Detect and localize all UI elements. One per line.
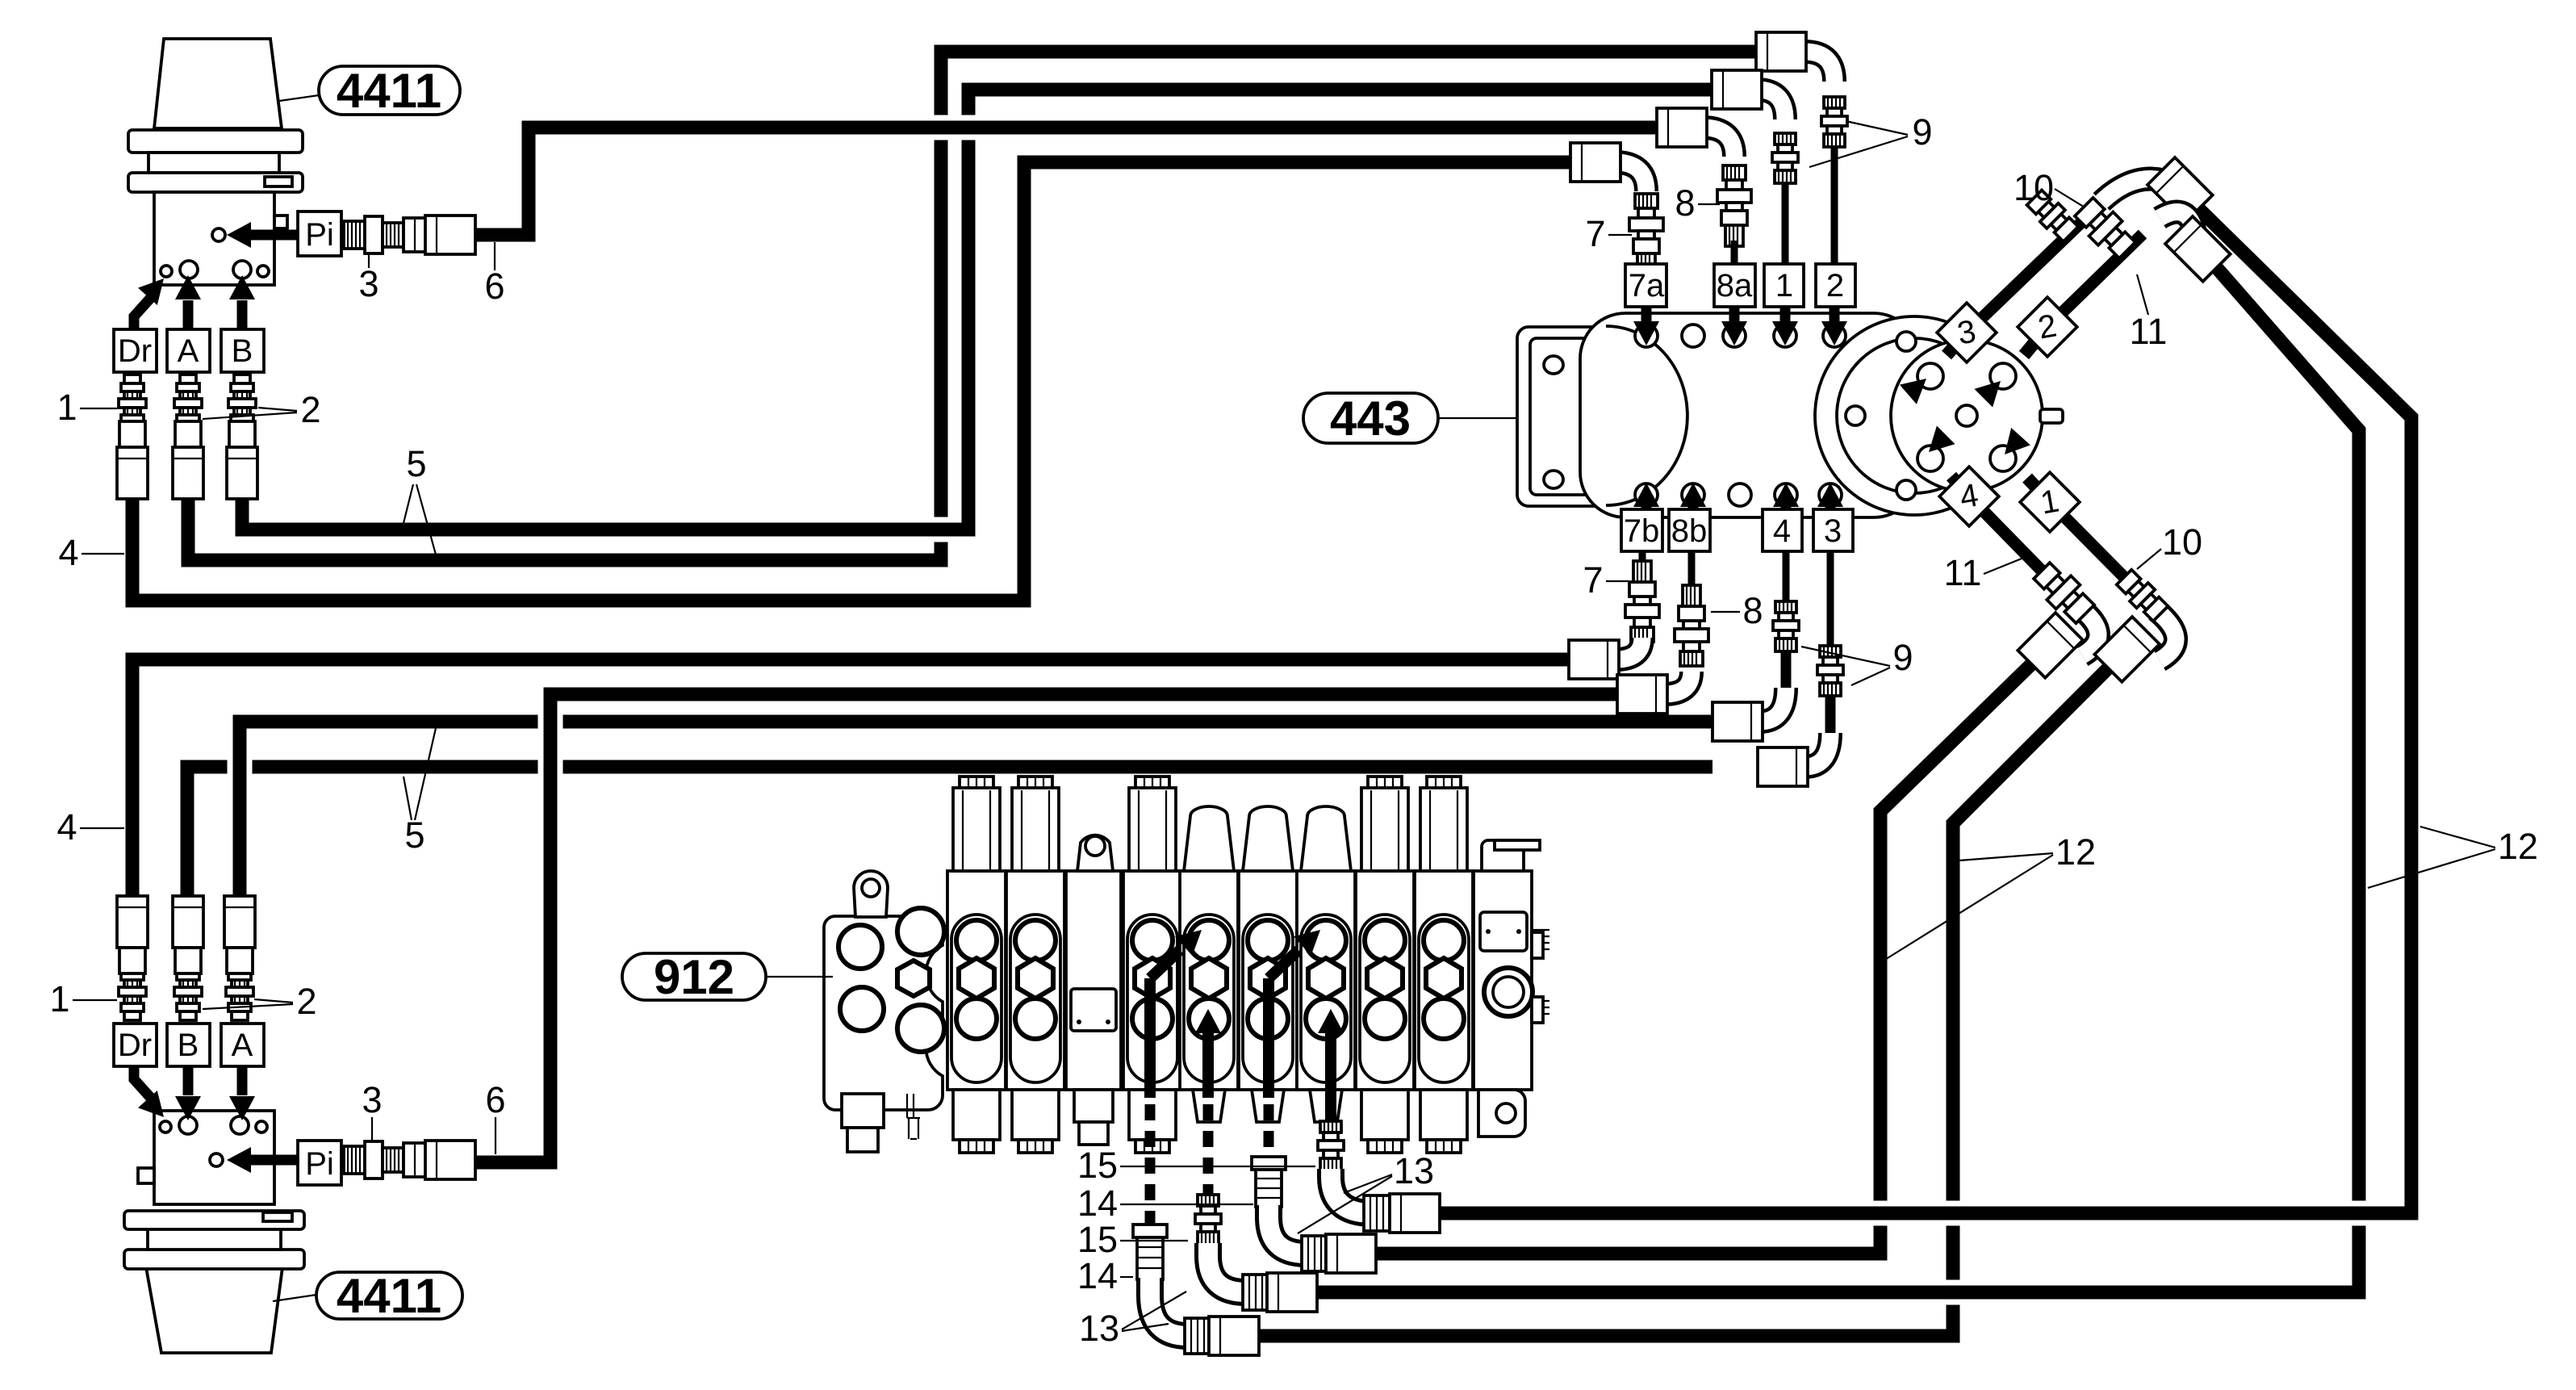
svg-text:7: 7 xyxy=(1585,213,1605,254)
svg-text:8: 8 xyxy=(1742,590,1763,631)
svg-text:5: 5 xyxy=(404,814,424,856)
svg-text:1: 1 xyxy=(49,978,69,1019)
svg-text:11: 11 xyxy=(1944,552,1982,593)
svg-text:9: 9 xyxy=(1892,637,1913,678)
svg-text:6: 6 xyxy=(484,266,504,307)
svg-text:13: 13 xyxy=(1079,1308,1119,1349)
svg-text:2: 2 xyxy=(1826,268,1844,304)
svg-text:6: 6 xyxy=(485,1079,505,1120)
svg-text:8a: 8a xyxy=(1717,268,1753,304)
svg-text:7a: 7a xyxy=(1629,268,1665,304)
svg-text:12: 12 xyxy=(2498,826,2538,867)
svg-text:443: 443 xyxy=(1330,391,1411,446)
svg-text:4411: 4411 xyxy=(337,64,441,118)
svg-text:13: 13 xyxy=(1394,1150,1434,1191)
svg-text:10: 10 xyxy=(2162,521,2202,563)
svg-text:11: 11 xyxy=(2130,311,2168,352)
svg-text:4: 4 xyxy=(58,532,78,573)
svg-text:3: 3 xyxy=(358,263,378,304)
svg-text:2: 2 xyxy=(300,389,320,430)
svg-text:5: 5 xyxy=(406,443,426,484)
svg-text:9: 9 xyxy=(1912,111,1932,153)
svg-text:7: 7 xyxy=(1583,559,1603,601)
svg-text:1: 1 xyxy=(1775,268,1793,304)
svg-text:A: A xyxy=(232,1028,253,1063)
svg-text:Dr: Dr xyxy=(118,1028,152,1063)
svg-text:3: 3 xyxy=(1824,513,1842,549)
svg-text:7b: 7b xyxy=(1624,513,1660,549)
svg-text:1: 1 xyxy=(56,387,77,428)
svg-text:14: 14 xyxy=(1077,1255,1118,1296)
svg-text:Dr: Dr xyxy=(118,333,152,369)
svg-text:B: B xyxy=(178,1028,199,1063)
svg-text:Pi: Pi xyxy=(305,1146,334,1182)
svg-text:B: B xyxy=(232,333,253,369)
svg-text:4: 4 xyxy=(56,806,77,848)
svg-text:14: 14 xyxy=(1077,1183,1118,1224)
svg-text:15: 15 xyxy=(1077,1145,1118,1186)
svg-text:8: 8 xyxy=(1675,182,1695,224)
svg-text:4411: 4411 xyxy=(337,1269,441,1323)
svg-text:A: A xyxy=(178,333,199,369)
svg-text:12: 12 xyxy=(2055,831,2096,873)
svg-text:2: 2 xyxy=(296,981,316,1022)
svg-text:10: 10 xyxy=(2014,167,2054,208)
svg-text:4: 4 xyxy=(1773,513,1791,549)
svg-text:15: 15 xyxy=(1077,1219,1118,1260)
svg-text:3: 3 xyxy=(362,1079,382,1120)
svg-text:912: 912 xyxy=(654,950,734,1004)
svg-text:8b: 8b xyxy=(1671,513,1708,549)
svg-text:Pi: Pi xyxy=(305,217,334,253)
